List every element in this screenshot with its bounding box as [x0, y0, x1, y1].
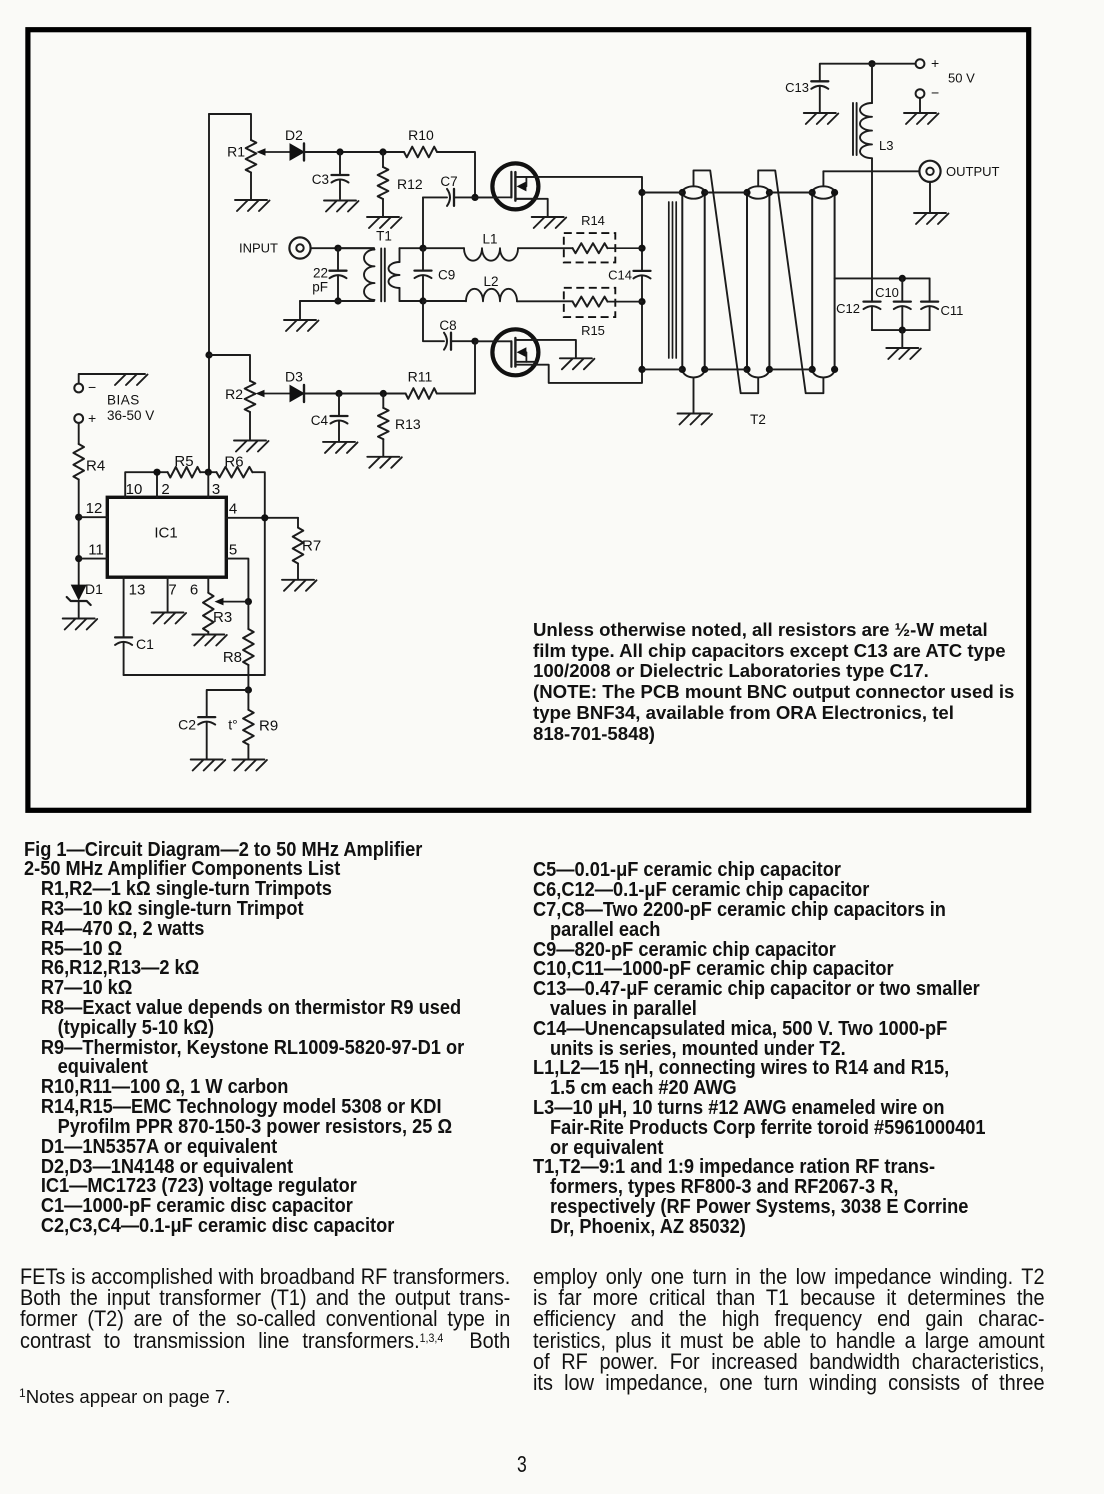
50V plus terminal — [916, 59, 925, 68]
svg-text:R9: R9 — [259, 718, 278, 735]
ground below R13 — [367, 456, 399, 458]
resistor R7 — [297, 518, 299, 528]
node R12 — [379, 148, 386, 155]
pin 7 — [167, 577, 169, 611]
resistor R2 (trimpot) — [245, 381, 256, 412]
svg-text:C11: C11 — [941, 303, 964, 318]
wire cap network top — [835, 277, 930, 279]
svg-text:36-50 V: 36-50 V — [107, 408, 154, 423]
node gate Q1 — [471, 194, 478, 201]
T2 tube 2 — [746, 193, 748, 370]
ground below R12 — [367, 216, 399, 218]
ground below C3 — [324, 200, 356, 202]
capacitor C8 — [450, 333, 452, 350]
svg-text:R6: R6 — [224, 454, 243, 471]
svg-text:D3: D3 — [285, 369, 303, 385]
wire C7 riser to T1 node — [422, 197, 424, 248]
capacitor 22 pF — [337, 248, 339, 271]
svg-text:C12: C12 — [836, 301, 860, 316]
capacitor C14 — [634, 270, 651, 272]
ground 50V minus — [904, 112, 936, 114]
resistor R6 — [217, 467, 253, 478]
figure caption and components list — [24, 840, 464, 1236]
wire output line — [823, 170, 919, 172]
inductor L1 — [423, 247, 464, 249]
svg-text:R7: R7 — [302, 538, 321, 555]
ground below output — [929, 182, 931, 212]
ground below R1 — [235, 199, 267, 201]
node R14 rail — [638, 245, 645, 252]
ground T2 — [678, 413, 710, 415]
node R13 — [380, 390, 387, 397]
svg-text:C9: C9 — [438, 268, 455, 283]
diode D2 — [290, 144, 304, 160]
svg-text:R10: R10 — [408, 127, 434, 143]
ground below C4 — [323, 441, 355, 443]
resistor R8 — [247, 602, 249, 629]
svg-text:INPUT: INPUT — [239, 241, 278, 256]
pin 6 — [207, 577, 209, 593]
capacitor C10 — [901, 278, 903, 301]
svg-text:C4: C4 — [311, 413, 329, 428]
svg-text:−: − — [931, 85, 939, 101]
transformer T2 core — [668, 202, 670, 358]
wire T2 bottom rail — [642, 368, 812, 370]
svg-text:C14: C14 — [608, 268, 632, 283]
ground cap network — [901, 330, 903, 347]
capacitor C13 — [820, 64, 872, 82]
node T1 secondary bottom — [419, 297, 426, 304]
wire bus top to R1 — [209, 114, 251, 140]
T2 output link — [822, 171, 824, 186]
inductor L3 — [871, 64, 873, 103]
transformer T1 core — [380, 249, 382, 302]
svg-text:C3: C3 — [312, 172, 329, 187]
pin 2 — [156, 472, 158, 497]
ground below R2 — [234, 440, 266, 442]
ground bias minus — [113, 373, 145, 375]
pin 10 — [125, 472, 167, 497]
pin 5 — [226, 559, 248, 602]
svg-text:L1: L1 — [482, 232, 497, 247]
node 22pF top — [334, 245, 341, 252]
wire bias bus vertical — [208, 114, 210, 472]
svg-text:12: 12 — [86, 500, 103, 517]
node C3 — [336, 148, 343, 155]
resistor R14 (dashed module) — [564, 233, 616, 262]
ground below C13 — [804, 112, 836, 114]
node pin11 — [75, 555, 82, 562]
wire Q2 source to ground — [515, 340, 576, 357]
svg-text:R4: R4 — [86, 458, 105, 475]
node Q2 drain rail — [638, 366, 645, 373]
wire T2 tube1 to ground — [693, 378, 695, 413]
wire Q1 drain to T2 — [515, 177, 642, 193]
inductor L3 core — [852, 103, 854, 155]
ground below R9 — [232, 759, 264, 761]
transistor Q2 (lower MOSFET) — [492, 329, 538, 375]
input connector J1 — [289, 237, 310, 258]
op-amp/regulator IC1 — [107, 497, 226, 577]
node T1 secondary top — [419, 245, 426, 252]
svg-text:6: 6 — [190, 582, 198, 599]
svg-text:R2: R2 — [225, 386, 243, 402]
pin 4 — [226, 517, 298, 519]
svg-text:50 V: 50 V — [948, 71, 975, 86]
wire input to T1 — [311, 247, 374, 249]
figure border frame — [28, 30, 1029, 811]
ground pin 7 — [152, 612, 184, 614]
svg-text:T2: T2 — [750, 412, 766, 427]
svg-text:D2: D2 — [285, 127, 303, 143]
wire R10 to gate node — [437, 152, 475, 197]
node R2 branch — [205, 351, 212, 358]
capacitor C4 — [338, 394, 340, 417]
body text right column — [533, 1266, 1045, 1394]
wire D2 to R10 — [304, 151, 404, 153]
resistor R5 — [168, 467, 201, 478]
ground input side — [284, 319, 316, 321]
transformer T1 primary — [338, 247, 374, 249]
resistor R13 — [382, 394, 384, 408]
footnote — [19, 1387, 230, 1409]
wire bus to R2 — [209, 355, 250, 381]
node Q1 drain rail — [638, 189, 645, 196]
svg-text:C1: C1 — [136, 636, 154, 652]
svg-text:4: 4 — [229, 501, 237, 518]
svg-text:13: 13 — [129, 582, 146, 599]
capacitor C1 — [115, 636, 132, 638]
svg-text:R15: R15 — [581, 323, 605, 338]
node 22pF bottom — [334, 297, 341, 304]
resistor R10 — [404, 147, 437, 158]
svg-text:R14: R14 — [581, 213, 605, 228]
svg-text:3: 3 — [212, 481, 220, 498]
transformer T1 secondary — [399, 248, 401, 262]
capacitor C7 — [423, 196, 447, 198]
bias plus terminal — [74, 414, 83, 423]
svg-text:10: 10 — [126, 481, 143, 498]
svg-text:L3: L3 — [879, 138, 893, 153]
zener diode D1 — [71, 585, 87, 601]
pin 11 — [79, 558, 108, 560]
node pin12 — [75, 514, 82, 521]
output connector — [919, 161, 940, 182]
body text left column — [20, 1266, 510, 1355]
resistor R12 — [382, 152, 384, 167]
svg-text:BIAS: BIAS — [107, 393, 140, 408]
50V minus terminal — [916, 89, 925, 98]
inductor L2 — [423, 300, 466, 302]
transistor Q1 (upper MOSFET) — [492, 163, 538, 209]
wire cap network bottom — [872, 329, 930, 331]
svg-text:7: 7 — [168, 582, 176, 599]
svg-text:IC1: IC1 — [154, 525, 177, 542]
resistor R11 — [406, 388, 437, 399]
wire T1 primary bottom rail — [300, 300, 374, 302]
resistor R3 (trimpot) — [203, 593, 214, 632]
pin 3 — [207, 472, 209, 497]
svg-text:+: + — [931, 55, 939, 71]
resistor R1 (trimpot) — [246, 140, 257, 173]
wire C9 node to C8 — [423, 301, 444, 341]
ground Q1 source — [532, 216, 564, 218]
svg-text:C13: C13 — [785, 80, 809, 95]
node R3 wiper — [245, 598, 252, 605]
wire T2 left rail upper — [641, 193, 643, 271]
page number — [517, 1452, 527, 1476]
node C10 bottom — [899, 327, 906, 334]
svg-text:+: + — [88, 410, 96, 426]
wire T2 top rail — [642, 192, 812, 194]
resistor R4 — [78, 423, 80, 444]
capacitor C2 — [207, 690, 249, 717]
resistor R15 (dashed module) — [564, 288, 616, 317]
capacitor C12 — [864, 300, 881, 302]
ground below C2 — [191, 759, 223, 761]
wire Q1 source to ground — [515, 199, 547, 216]
svg-text:5: 5 — [229, 542, 237, 559]
svg-text:11: 11 — [88, 542, 104, 559]
T2 tube 1 — [681, 193, 683, 370]
svg-text:R12: R12 — [397, 176, 423, 192]
svg-text:−: − — [88, 379, 96, 395]
T2 winding link 2 — [758, 170, 823, 393]
svg-text:R11: R11 — [408, 369, 433, 385]
node pin 4 bus — [261, 514, 268, 521]
capacitor C9 — [422, 248, 424, 270]
svg-text:C7: C7 — [440, 174, 457, 189]
svg-text:2: 2 — [161, 481, 169, 498]
ground Q2 source — [560, 357, 592, 359]
wire R11 to gate node — [437, 341, 475, 393]
pin 12 — [79, 516, 108, 518]
wire D3 to R11 — [304, 393, 406, 395]
svg-text:R13: R13 — [395, 416, 421, 432]
capacitor C11 — [929, 278, 931, 301]
wire Q2 drain to T2 bottom — [515, 365, 642, 383]
ground below D1 — [63, 618, 95, 620]
node gate Q2 — [471, 338, 478, 345]
wire ground rail — [124, 674, 265, 676]
svg-text:C2: C2 — [178, 717, 196, 733]
node pin 3 — [200, 471, 216, 473]
svg-text:D1: D1 — [85, 581, 103, 597]
ground below R3 — [192, 634, 224, 636]
diode D3 — [290, 386, 304, 402]
svg-text:R8: R8 — [223, 649, 242, 666]
T2 winding link 1 — [694, 170, 759, 393]
wire R6 down bus — [252, 472, 264, 675]
svg-text:L2: L2 — [483, 274, 498, 289]
wire minus to ground — [79, 374, 113, 384]
capacitor C3 — [339, 152, 341, 175]
bias minus terminal — [74, 384, 83, 393]
svg-text:C8: C8 — [439, 318, 456, 333]
svg-text:T1: T1 — [376, 229, 392, 244]
svg-text:pF: pF — [312, 280, 328, 295]
svg-text:t°: t° — [228, 717, 238, 733]
svg-text:R3: R3 — [213, 609, 232, 626]
node 50V feed — [868, 60, 875, 67]
notes block inside figure — [533, 620, 1033, 744]
pin 13 — [123, 577, 125, 637]
node R15 rail — [638, 298, 645, 305]
node R8 bottom — [245, 686, 252, 693]
T2 tube 3 — [811, 193, 813, 370]
ground below R7 — [282, 579, 314, 581]
svg-text:R5: R5 — [174, 453, 193, 470]
svg-text:C10: C10 — [875, 285, 899, 300]
svg-text:22: 22 — [313, 266, 328, 281]
svg-text:R1: R1 — [227, 144, 245, 160]
thermistor R9 — [247, 690, 249, 710]
svg-text:OUTPUT: OUTPUT — [946, 164, 1000, 179]
node C4 — [335, 390, 342, 397]
wire to plus terminal — [872, 63, 916, 65]
node C10 top — [899, 275, 906, 282]
